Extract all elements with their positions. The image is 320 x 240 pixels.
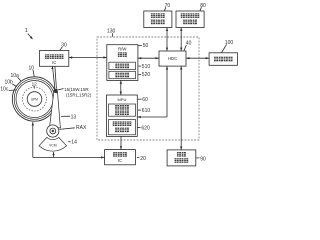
HDC box 40 — [159, 51, 186, 66]
wire HDC - MPU — [166, 66, 168, 117]
pivot RAX dot — [52, 130, 54, 132]
volatile memory box 70 — [144, 11, 172, 28]
svg-text:20: 20 — [140, 156, 146, 162]
head 15 — [54, 89, 58, 94]
svg-text:IC: IC — [118, 158, 122, 163]
svg-text:520: 520 — [142, 72, 151, 78]
svg-text:90: 90 — [200, 156, 206, 162]
dashed circle 12 — [23, 87, 47, 111]
wire MPU - driver IC — [120, 136, 122, 149]
buffer memory box 90 — [167, 150, 196, 166]
svg-text:SPM: SPM — [31, 97, 38, 101]
wire HDC - host — [186, 57, 209, 59]
recording area manager box 620 — [109, 120, 136, 135]
VCM fan — [39, 137, 67, 151]
svg-text:RAX: RAX — [76, 125, 87, 131]
wire head amp to head — [53, 66, 55, 88]
disk circle 10b — [14, 79, 55, 120]
demodulator box 510 — [109, 62, 136, 69]
wire volatile memory - HDC — [166, 28, 168, 52]
wire R/W channel - HDC — [138, 57, 159, 59]
svg-text:13: 13 — [71, 114, 77, 120]
svg-text:610: 610 — [142, 108, 151, 114]
wire R/W channel - MPU — [120, 80, 122, 95]
head amplifier IC box 30 — [40, 51, 69, 67]
svg-text:R/W: R/W — [118, 46, 127, 51]
svg-text:MPU: MPU — [117, 97, 126, 102]
driver IC box 20 — [105, 150, 136, 165]
disk circle 10c — [16, 81, 53, 118]
svg-text:40: 40 — [186, 41, 192, 47]
actuator arm 13 — [50, 90, 61, 128]
svg-text:HDC: HDC — [168, 56, 177, 61]
svg-text:IC: IC — [52, 60, 56, 65]
svg-text:510: 510 — [142, 64, 151, 70]
nonvolatile memory box 80 — [176, 11, 204, 28]
svg-text:1: 1 — [25, 28, 28, 34]
svg-text:(15R1,15R2): (15R1,15R2) — [66, 92, 92, 97]
wire head amp - R/W channel — [69, 57, 107, 59]
wire driver IC - VCM and SPM — [33, 156, 105, 158]
pivot RAX outer — [47, 125, 59, 137]
svg-text:10c: 10c — [0, 87, 9, 93]
spindle motor SPM — [27, 92, 42, 107]
svg-text:130: 130 — [107, 28, 116, 34]
disk 10 outer circle — [12, 77, 56, 121]
pivot RAX inner — [50, 128, 56, 134]
wire nonvolatile memory - HDC — [180, 28, 182, 52]
MPU box 60 — [107, 95, 138, 136]
svg-text:VCM: VCM — [49, 144, 57, 148]
svg-text:15(15W,15R: 15(15W,15R — [64, 87, 88, 92]
svg-text:620: 620 — [141, 125, 150, 131]
demodulator box 520 — [109, 71, 136, 78]
svg-text:60: 60 — [142, 97, 148, 103]
svg-text:50: 50 — [143, 43, 149, 49]
svg-text:10b: 10b — [5, 80, 14, 86]
wire HDC - buffer memory — [180, 66, 182, 150]
R/W controller box 610 — [109, 104, 136, 116]
system controller dashed box 130 — [97, 37, 199, 140]
host system box 100 — [209, 53, 237, 66]
R/W channel box 50 — [107, 45, 138, 81]
svg-text:12: 12 — [32, 81, 38, 86]
svg-text:14: 14 — [71, 140, 77, 146]
